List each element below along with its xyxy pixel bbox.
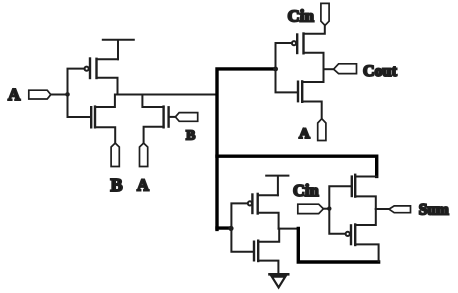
svg-text:A: A (137, 176, 149, 195)
wire M8 drain down to Sum node (355, 196, 376, 209)
wire M2 source down to pin B (95, 127, 115, 143)
transistor M5 NMOS (Cout block bottom) (298, 81, 302, 101)
wire M4 drain to Cout node (304, 53, 324, 82)
transistor M4 PMOS (Cout block top, gate from J2) (292, 34, 304, 54)
port B (right input pin) (175, 113, 197, 122)
port Cin (sum block input pin) (298, 204, 324, 213)
transistor M6 PMOS (sum block left top) (248, 194, 258, 214)
wire thick branch to sum block top (217, 156, 377, 176)
transistor M9 PMOS (sum block right bottom) (346, 225, 356, 246)
wire M7 drain up to sum-left node (258, 229, 279, 242)
wire M6 drain down to sum-left node (258, 213, 279, 229)
wire Sum node to port Sum (376, 208, 389, 210)
port Sum (output pin) (389, 206, 411, 213)
transistor M3 NMOS (left block mirrored, gate B) (164, 107, 169, 128)
wire M9 source down to thick loop (355, 244, 378, 261)
svg-text:A: A (299, 126, 310, 142)
wire gate bus Cout block (J2 to M4 and M5 gates) (276, 43, 298, 92)
wire gate bus sum-right (J4 to M8 and M9 gates) (329, 186, 351, 234)
transistor M8 NMOS (sum block right top) (352, 175, 355, 197)
port Cout (output pin) (334, 64, 357, 74)
wire M3 source down to pin A (144, 127, 164, 144)
wire P1 source to VDD1 (97, 58, 119, 60)
wire gate bus of A (J1 up to M1 gate, down to M2 gate) (68, 69, 91, 117)
power VDD1 (left block rail) (103, 40, 134, 59)
wire M3 drain to node n1 (142, 95, 163, 108)
node J1 (A gate junction) (65, 92, 70, 97)
wire thick bus n1 vertical + to J2 (217, 69, 276, 230)
wire M1 drain down to node n1 (97, 78, 118, 95)
wire M7 source down to ground (258, 261, 278, 274)
power VDD2 (sum block rail) (266, 176, 288, 196)
node J3 (sum left gate junction) (228, 226, 233, 231)
svg-text:A: A (8, 85, 21, 104)
svg-text:Sum: Sum (419, 202, 449, 219)
wire port Cin to J4 (323, 208, 328, 210)
port A (pin under M5) (318, 119, 326, 141)
transistor M7 NMOS (sum block left bottom) (254, 241, 258, 261)
node J2 (Cout block gate junction) (273, 67, 278, 72)
wire M3 gate to port B (169, 116, 176, 118)
wire node n1 (long horizontal to thick bus) (116, 94, 216, 96)
wire thick stub to J3 (217, 226, 230, 229)
port A (input pin left) (29, 90, 51, 99)
svg-text:B: B (186, 128, 195, 143)
port B (bottom pill under M2) (111, 143, 119, 166)
wire Cout node to port Cout (324, 68, 334, 70)
transistor M2 NMOS (left block, gate A) (91, 107, 95, 128)
wire sum-left node to thick loop (279, 228, 297, 230)
wire Cin pin to M4 source (304, 25, 325, 33)
wire M2 drain to node n1 (95, 95, 115, 108)
wire M8 source to thick branch (355, 176, 376, 178)
svg-text:Cin: Cin (288, 6, 315, 25)
ground symbol (270, 274, 289, 287)
wire M6 source to VDD2 (258, 194, 278, 196)
wire M5 drain to Cout node (302, 81, 323, 83)
svg-text:Cout: Cout (363, 63, 397, 80)
svg-text:B: B (111, 175, 123, 195)
wire M5 source down to pin A (302, 102, 322, 119)
port Cin (top pin) (321, 3, 329, 25)
port A (bottom pill under M3) (140, 143, 148, 166)
wire thick loop (sum-left node down around to M9 source) (298, 228, 378, 262)
svg-text:Cin: Cin (293, 181, 319, 200)
wire gate bus sum-left (J3 to M6 and M7 gates) (231, 203, 253, 251)
wire M9 drain up to Sum node (355, 209, 376, 225)
transistor M1 PMOS (left block pull-up, gate A) (85, 59, 97, 79)
node J4 (sum right gate junction) (327, 206, 331, 210)
wire port A to node J1 (51, 94, 66, 96)
